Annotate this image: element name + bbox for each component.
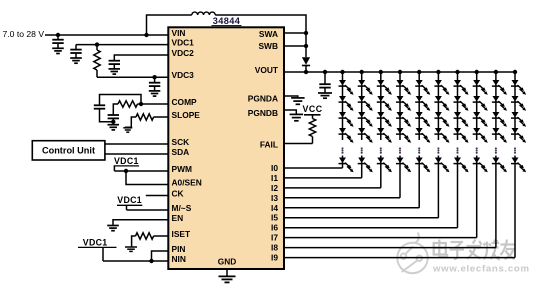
LED string 4 (column to I3) [396, 70, 411, 172]
svg-text:VDC1: VDC1 [172, 38, 195, 48]
wire I5 [284, 217, 438, 219]
LED string 10 (column to I9) [511, 70, 526, 172]
LED string 5 (column to I4) [415, 70, 430, 172]
capacitor C1 [57, 35, 59, 40]
wire VDC2 [114, 55, 168, 61]
svg-text:SWB: SWB [258, 41, 278, 51]
svg-text:I1: I1 [271, 173, 278, 183]
svg-text:I2: I2 [271, 183, 278, 193]
ground COMP [108, 124, 120, 126]
node C7 [323, 70, 327, 74]
svg-text:I7: I7 [271, 233, 278, 243]
svg-text:www.elecfans.com: www.elecfans.com [432, 264, 530, 275]
LED string 1 (column to I0) [339, 70, 354, 172]
watermark chinese glyphs [434, 240, 515, 260]
capacitor C2 [75, 45, 77, 50]
wire I0 [284, 167, 343, 169]
wire I2 [284, 187, 381, 189]
svg-text:NIN: NIN [172, 254, 186, 264]
resistor R2 COMP [118, 101, 137, 107]
wire VIN [45, 34, 168, 36]
wire I7 [284, 237, 477, 239]
svg-text:PGNDA: PGNDA [248, 94, 278, 104]
svg-text:34844: 34844 [213, 16, 241, 26]
node VIN-L1 [144, 33, 148, 37]
ground PGNDA [291, 97, 305, 99]
capacitor C3 VDC2 [109, 60, 120, 62]
LED string 9 (column to I8) [492, 70, 507, 172]
wire PGNDA [284, 96, 298, 98]
node COMP [139, 102, 143, 106]
wire SCK [105, 143, 168, 145]
wire I3 [284, 197, 400, 199]
svg-text:SLOPE: SLOPE [172, 110, 201, 120]
wire VOUT rail [284, 71, 515, 73]
resistor R1 VDC1-VDC3 [96, 45, 98, 50]
node VDC1 [95, 42, 99, 46]
wire I8 [284, 247, 496, 249]
svg-text:I8: I8 [271, 243, 278, 253]
wire GND [226, 269, 228, 276]
ground C3 [109, 68, 121, 70]
node PWM [124, 169, 128, 173]
svg-text:7.0 to 28 V: 7.0 to 28 V [3, 29, 45, 39]
svg-text:I9: I9 [271, 253, 278, 263]
svg-text:VDC1: VDC1 [117, 195, 142, 205]
ground GND [219, 275, 236, 277]
control unit box [32, 141, 105, 160]
ground ISET [125, 246, 137, 248]
wire SDA [105, 153, 168, 155]
wire SLOPE [154, 116, 169, 118]
svg-text:Control Unit: Control Unit [42, 146, 95, 156]
wire COMP [141, 103, 168, 105]
wire NIN [103, 260, 168, 262]
wire VIN to inductor [147, 15, 192, 35]
wire SWB [284, 45, 306, 47]
svg-text:CK: CK [172, 189, 184, 199]
watermark logo circle [397, 233, 427, 274]
inductor L1 [192, 12, 215, 15]
svg-text:EN: EN [172, 213, 184, 223]
svg-text:VOUT: VOUT [255, 65, 279, 75]
wire inductor to switch node [215, 15, 306, 57]
svg-text:PIN: PIN [172, 244, 186, 254]
svg-text:FAIL: FAIL [260, 140, 278, 150]
resistor R4 ISET [136, 233, 154, 239]
ground C2 [70, 57, 82, 59]
svg-text:I0: I0 [271, 163, 278, 173]
svg-text:A0/SEN: A0/SEN [172, 178, 202, 188]
capacitor C5 [94, 104, 105, 106]
wire PGNDB [284, 110, 296, 114]
svg-text:SWA: SWA [259, 29, 278, 39]
svg-text:VDC1: VDC1 [83, 237, 108, 247]
svg-text:M/~S: M/~S [172, 203, 192, 213]
svg-text:COMP: COMP [172, 97, 198, 107]
op-amp / driver IC U1 MC34844 body [168, 27, 284, 269]
wire ISET [154, 235, 169, 237]
svg-text:PWM: PWM [172, 164, 192, 174]
wire A0/SEN [126, 171, 168, 185]
wire M/~S [127, 209, 169, 211]
svg-text:ISET: ISET [172, 229, 191, 239]
capacitor C6 [113, 104, 118, 115]
wire EN [113, 220, 168, 225]
svg-text:VDC2: VDC2 [172, 48, 195, 58]
wire CK stub [146, 195, 169, 197]
svg-text:SDA: SDA [172, 147, 190, 157]
svg-text:I6: I6 [271, 223, 278, 233]
svg-text:VDC1: VDC1 [114, 156, 139, 166]
svg-text:GND: GND [218, 257, 236, 267]
ground C7 [318, 92, 332, 94]
LED string 3 (column to I2) [377, 70, 392, 172]
wire I6 [284, 227, 458, 229]
node COMP gnd [111, 120, 115, 124]
node diode-VOUT [304, 70, 308, 74]
wire I4 [284, 207, 419, 209]
ground C4 [149, 90, 161, 92]
ground SLOPE [123, 127, 132, 129]
wire FAIL [284, 143, 313, 145]
wire SWA [284, 32, 306, 34]
LED string 7 (column to I6) [454, 70, 469, 172]
ground C1 [52, 47, 64, 49]
wire PWM [114, 170, 168, 172]
svg-text:PGNDB: PGNDB [248, 108, 278, 118]
svg-text:SCK: SCK [172, 137, 190, 147]
wire VDC3 [97, 76, 168, 78]
wire VDC1 [76, 44, 168, 46]
wire diode to VOUT [305, 66, 307, 73]
ground PGNDB [290, 113, 304, 115]
LED string 6 (column to I5) [434, 70, 449, 172]
node NIN [149, 259, 153, 263]
svg-text:I3: I3 [271, 193, 278, 203]
wire I9 [284, 257, 515, 259]
wire COMP top branch [100, 95, 142, 106]
ground EN [107, 225, 119, 227]
svg-text:VDC3: VDC3 [172, 70, 195, 80]
wire I1 [284, 177, 362, 179]
capacitor C4 VDC3 [154, 77, 156, 83]
wire PIN [152, 251, 169, 261]
svg-text:VIN: VIN [172, 28, 186, 38]
node SWA [304, 31, 308, 35]
LED string 2 (column to I1) [358, 70, 373, 172]
diode D1 [302, 57, 310, 65]
svg-text:I5: I5 [271, 213, 278, 223]
svg-text:I4: I4 [271, 203, 278, 213]
resistor R3 SLOPE [136, 114, 154, 120]
resistor R5 VCC-FAIL pullup [312, 115, 314, 119]
node VIN-C1 [56, 33, 60, 37]
capacitor C7 output [324, 72, 326, 84]
node VDC3 [152, 75, 156, 79]
LED string 8 (column to I7) [473, 70, 488, 172]
node SWB [304, 44, 308, 48]
svg-text:VCC: VCC [303, 104, 323, 114]
